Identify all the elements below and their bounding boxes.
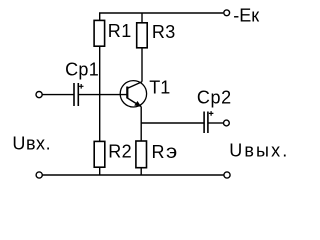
resistor Re [136, 141, 147, 168]
wire: input terminal to Cp1 [42, 94, 73, 96]
wire: R1 bottom through base node down to R2 [99, 46, 101, 141]
transistor T1 emitter arrow [134, 101, 141, 107]
transistor Q1 (T1) body circle [120, 81, 146, 107]
svg-text:R: R [152, 142, 165, 162]
transistor T1 base bar [126, 87, 128, 99]
svg-text:-Ек: -Ек [233, 5, 259, 25]
resistor R3 [137, 23, 148, 48]
wire: emitter down to Re (with node to Cp2) [140, 107, 142, 141]
svg-text:R3: R3 [152, 22, 176, 42]
resistor R2 [94, 141, 105, 167]
wire: Cp2 to output terminal [208, 122, 224, 124]
wire: R3 top stem [141, 13, 143, 23]
svg-text:R1: R1 [108, 21, 132, 41]
wire: Cp1 to transistor base [78, 94, 127, 96]
svg-text:Ср1: Ср1 [65, 59, 99, 79]
svg-text:R2: R2 [108, 141, 132, 161]
capacitor Cp1 polarity plus [79, 84, 84, 89]
svg-text:Т1: Т1 [149, 78, 170, 98]
transistor T1 collector lead [127, 82, 142, 89]
terminal: bottom left [36, 172, 42, 178]
capacitor Cp2 right plate [207, 112, 209, 134]
resistor R1 [94, 20, 105, 46]
terminal: bottom right [224, 172, 230, 178]
wire: top supply rail [100, 13, 224, 20]
capacitor Cp1 right plate [77, 83, 79, 106]
capacitor Cp2 polarity plus [209, 111, 214, 116]
wire: bottom common rail [43, 174, 224, 176]
svg-text:э: э [166, 141, 177, 162]
svg-text:Ср2: Ср2 [197, 87, 232, 107]
transistor T1 emitter lead [127, 98, 141, 107]
capacitor Cp2 left plate [203, 112, 205, 134]
wire: Re to bottom rail [140, 168, 142, 175]
svg-text:Uвых.: Uвых. [229, 140, 289, 160]
svg-text:Uвх.: Uвх. [12, 134, 51, 154]
wire: R2 to bottom rail [99, 167, 101, 175]
capacitor Cp1 left plate [73, 83, 75, 106]
terminal: Cp2 output [224, 120, 230, 126]
terminal: top right (-Ek) [224, 10, 230, 16]
wire: R3 bottom to collector [141, 48, 143, 82]
wire: emitter node to Cp2 [141, 122, 204, 124]
terminal: input left [36, 92, 42, 98]
